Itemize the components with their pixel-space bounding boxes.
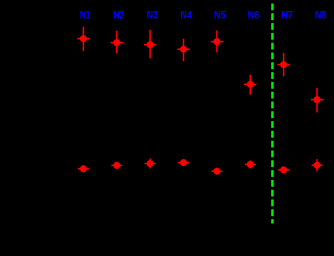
svg-text:N8: N8 xyxy=(315,9,327,21)
svg-text:N2: N2 xyxy=(113,9,124,21)
svg-text:N4: N4 xyxy=(181,9,193,21)
svg-text:N5: N5 xyxy=(214,9,226,21)
svg-text:N3: N3 xyxy=(147,9,158,21)
svg-text:N1: N1 xyxy=(80,9,91,21)
svg-text:N7: N7 xyxy=(281,9,293,21)
svg-text:N6: N6 xyxy=(248,9,260,21)
